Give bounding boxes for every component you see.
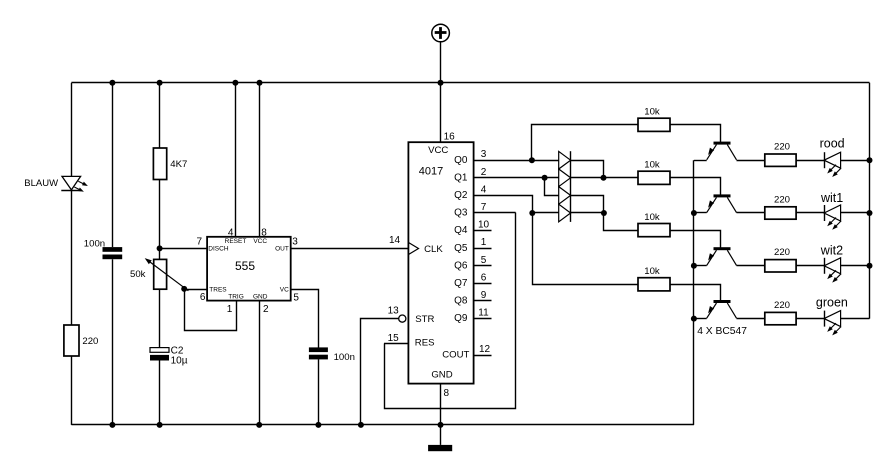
svg-text:7: 7: [481, 202, 487, 213]
LED BLAUW: [61, 176, 88, 191]
svg-text:220: 220: [774, 300, 790, 311]
LED rood: [824, 152, 841, 177]
wire D4 output: [571, 212, 604, 214]
svg-text:220: 220: [774, 247, 790, 258]
junction D1/D2 outputs: [601, 175, 607, 181]
svg-text:OUT: OUT: [275, 246, 289, 253]
wire LED rood to +V rail: [841, 160, 870, 162]
wire Q1 to diode D2: [474, 177, 559, 179]
ground symbol: [428, 425, 452, 451]
junction bottom rail / pin13: [358, 422, 364, 428]
junction bottom rail / C2 branch: [157, 422, 163, 428]
svg-text:Q8: Q8: [454, 296, 468, 307]
svg-text:220: 220: [774, 194, 790, 205]
junction D3/D4 outputs: [601, 210, 607, 216]
wire pot bottom to C2: [159, 289, 161, 347]
svg-text:4K7: 4K7: [170, 159, 187, 170]
wire 100n branch lower: [112, 259, 114, 425]
wire Q9 stub: [474, 318, 492, 320]
svg-text:9: 9: [481, 290, 487, 301]
wire 10k row4 to base: [671, 285, 721, 302]
svg-text:STR: STR: [415, 314, 434, 325]
svg-text:50k: 50k: [130, 269, 146, 280]
svg-text:TRIG: TRIG: [228, 294, 244, 301]
svg-text:10k: 10k: [644, 107, 660, 118]
wire D2 output to 10k row2: [571, 177, 638, 179]
junction DISCH node: [157, 245, 163, 251]
junction top rail / pin4: [232, 80, 238, 86]
svg-text:10k: 10k: [644, 266, 660, 277]
svg-text:10k: 10k: [644, 212, 660, 223]
wire left branch lower segment: [71, 356, 73, 425]
wire D3 output: [571, 196, 604, 213]
svg-text:3: 3: [481, 149, 487, 160]
wire D1 output: [571, 161, 604, 178]
junction bottom rail / pin2: [256, 422, 262, 428]
wire pin6 TRES: [184, 289, 207, 291]
wire LED wit2 to +V rail: [841, 265, 870, 267]
wire Q1 emitter to rail: [694, 160, 707, 162]
wire 10k row2 to base: [671, 178, 721, 196]
svg-text:VCC: VCC: [428, 145, 448, 156]
svg-text:1: 1: [481, 237, 487, 248]
diode D3: [559, 187, 571, 205]
svg-text:3: 3: [292, 237, 298, 248]
transistor Q2 BC547: [707, 194, 737, 212]
wire 220 row4 to LED: [796, 318, 824, 320]
svg-text:220: 220: [82, 336, 98, 347]
potentiometer 50k wiper arrow: [145, 258, 189, 291]
svg-text:RESET: RESET: [225, 238, 247, 245]
junction bottom rail / 100n branch: [109, 422, 115, 428]
diode D1: [559, 151, 571, 169]
transistor Q3 BC547: [707, 247, 737, 265]
svg-text:GND: GND: [253, 294, 268, 301]
svg-text:13: 13: [388, 306, 400, 317]
svg-text:10µ: 10µ: [171, 356, 188, 367]
junction +V rail rood: [867, 157, 873, 163]
svg-text:VC: VC: [280, 286, 289, 293]
wire emitter rail: [693, 160, 695, 425]
wire Q1 branch to diode D3: [545, 178, 559, 196]
svg-text:10k: 10k: [644, 160, 660, 171]
wire pin1 TRIG loop: [185, 289, 237, 331]
diode cathode bar: [570, 151, 572, 222]
svg-text:VCC: VCC: [253, 238, 267, 245]
svg-text:CLK: CLK: [424, 244, 443, 255]
wire pin13 STR to ground rail: [361, 319, 399, 425]
wire pin15 RES: [384, 343, 408, 345]
LED wit1: [824, 205, 841, 230]
svg-text:12: 12: [479, 344, 491, 355]
svg-text:10: 10: [478, 220, 490, 231]
junction top rail / 4K7 branch: [157, 80, 163, 86]
resistor 220 (left): [64, 325, 79, 356]
svg-text:COUT: COUT: [442, 349, 469, 360]
svg-text:GND: GND: [431, 369, 452, 380]
svg-text:14: 14: [389, 235, 401, 246]
wire Q3 collector to 220: [737, 265, 765, 267]
wire 10k row1 to base: [671, 125, 721, 143]
capacitor C2 10u: [150, 348, 169, 361]
CLK chevron: [409, 243, 419, 255]
wire pin8 to top rail: [259, 83, 261, 237]
wire pin8 GND down: [440, 384, 442, 425]
diode D2: [559, 169, 571, 187]
svg-text:8: 8: [261, 227, 267, 238]
junction bottom rail / 100n(555): [315, 422, 321, 428]
wire diode node to 10k row3: [604, 213, 639, 231]
svg-text:Q5: Q5: [454, 243, 468, 254]
wire 220 row2 to LED: [796, 212, 824, 214]
wire Q2 collector to 220: [737, 212, 765, 214]
svg-text:1: 1: [227, 304, 233, 315]
wire right +V rail down to LEDs: [869, 83, 871, 319]
junction emitter Q3: [691, 263, 697, 269]
wire 220 row3 to LED: [796, 265, 824, 267]
svg-text:7: 7: [197, 237, 203, 248]
svg-text:15: 15: [388, 333, 400, 344]
svg-text:RES: RES: [415, 338, 435, 349]
svg-text:555: 555: [235, 259, 255, 273]
wire Q7 stub: [474, 283, 492, 285]
svg-text:4017: 4017: [419, 166, 443, 178]
wire Q2 bend down: [474, 196, 533, 213]
wire top +V rail: [71, 82, 869, 84]
junction top rail / power: [438, 80, 444, 86]
wire LED groen to +V rail: [841, 318, 870, 320]
op-amp U1 555 body: [207, 237, 291, 301]
junction top rail / 100n branch: [109, 80, 115, 86]
wire left branch mid segment: [71, 190, 73, 325]
wire left branch upper segment: [71, 83, 73, 177]
svg-text:wit2: wit2: [820, 244, 843, 258]
svg-text:Q3: Q3: [454, 208, 468, 219]
svg-text:2: 2: [481, 167, 487, 178]
wire 4K7 top: [159, 83, 161, 148]
wire pin4 to top rail: [235, 83, 237, 237]
wire Q2 down to 10k row4: [533, 213, 639, 285]
junction wiper / TRES node: [181, 286, 187, 292]
wire 220 row1 to LED: [796, 160, 824, 162]
diode D4: [559, 204, 571, 222]
wire LED wit1 to +V rail: [841, 212, 870, 214]
wire pin3 OUT to CLK: [291, 248, 409, 250]
junction Q1 node: [542, 175, 548, 181]
svg-text:6: 6: [200, 292, 206, 303]
wire bottom ground rail: [71, 424, 694, 426]
svg-text:Q4: Q4: [454, 225, 468, 236]
wire Q0 to diode D1: [474, 160, 559, 162]
svg-text:2: 2: [263, 304, 269, 315]
wire Q2 emitter to rail: [694, 212, 707, 214]
wire 4K7 to pot: [159, 180, 161, 260]
svg-text:BLAUW: BLAUW: [24, 178, 58, 189]
svg-text:100n: 100n: [334, 352, 355, 363]
LED groen: [824, 311, 841, 336]
svg-text:100n: 100n: [84, 238, 105, 249]
wire Q3 emitter to rail: [694, 265, 707, 267]
svg-text:4: 4: [481, 184, 487, 195]
svg-text:TRES: TRES: [209, 287, 227, 294]
wire 100n to ground rail: [318, 359, 320, 425]
svg-text:groen: groen: [816, 296, 848, 310]
svg-text:11: 11: [478, 308, 489, 319]
wire Q0 riser to 10k row1: [532, 125, 639, 161]
wire Q6 stub: [474, 265, 492, 267]
svg-text:Q9: Q9: [454, 313, 468, 324]
resistor 10k row1: [638, 118, 670, 131]
wire 10k row3 to base: [671, 231, 721, 249]
svg-text:rood: rood: [820, 136, 845, 150]
wire Q1 collector to 220: [737, 160, 765, 162]
power +V terminal: [432, 24, 450, 42]
wire Q3 pin7 stub: [474, 212, 516, 214]
wire pin12 COUT stub: [474, 355, 492, 357]
resistor 220 row2: [765, 207, 796, 219]
svg-text:220: 220: [774, 142, 790, 153]
svg-text:DISCH: DISCH: [208, 246, 229, 253]
capacitor 100n (left): [103, 247, 123, 259]
svg-text:4: 4: [228, 227, 234, 238]
junction top rail / pin8: [257, 80, 263, 86]
svg-text:8: 8: [444, 388, 450, 399]
svg-text:wit1: wit1: [820, 191, 843, 205]
svg-text:16: 16: [444, 131, 456, 142]
transistor Q4 BC547: [707, 300, 737, 318]
wire pin2 GND down: [259, 301, 261, 425]
wire Q8 stub: [474, 300, 492, 302]
capacitor 100n (555): [309, 347, 328, 359]
wire Q2 to diode D4: [532, 212, 558, 214]
junction Q2 node: [529, 210, 535, 216]
wire C2 to ground rail: [159, 361, 161, 425]
wire 100n branch upper: [112, 83, 114, 247]
svg-text:Q1: Q1: [454, 172, 468, 183]
svg-text:Q6: Q6: [454, 260, 468, 271]
resistor 220 row3: [765, 260, 796, 272]
potentiometer 50k body: [154, 259, 167, 289]
junction +V rail wit2: [867, 263, 873, 269]
resistor 10k row2: [638, 171, 670, 184]
svg-text:Q2: Q2: [454, 190, 468, 201]
svg-text:4 X BC547: 4 X BC547: [697, 326, 747, 337]
resistor 10k row3: [638, 224, 670, 237]
junction emitter Q2: [691, 210, 697, 216]
IC U2 4017 body: [408, 142, 473, 383]
svg-text:Q0: Q0: [454, 155, 468, 166]
resistor 10k row4: [638, 278, 670, 291]
wire Q4 emitter to rail: [694, 318, 707, 320]
wire Q3 to RES feedback: [385, 213, 516, 409]
STR bubble: [399, 315, 406, 322]
resistor 220 row4: [765, 312, 796, 324]
svg-text:6: 6: [481, 272, 487, 283]
resistor 220 row1: [765, 154, 796, 166]
transistor Q1 BC547: [707, 142, 737, 160]
wire power to top rail: [440, 42, 442, 83]
junction Q0 node: [529, 157, 535, 163]
svg-text:5: 5: [293, 293, 299, 304]
junction bottom rail / pin8 4017: [438, 422, 444, 428]
wire pin16 VCC: [440, 83, 442, 142]
wire Q5 stub: [474, 248, 492, 250]
LED wit2: [824, 258, 841, 283]
wire pin5 VC to 100n: [291, 290, 319, 348]
wire Q4 stub: [474, 230, 492, 232]
junction +V rail wit1: [867, 210, 873, 216]
svg-text:5: 5: [481, 255, 487, 266]
junction emitter Q4: [691, 316, 697, 322]
wire Q4 collector to 220: [737, 318, 765, 320]
wire pin7 DISCH: [160, 248, 208, 250]
svg-text:Q7: Q7: [454, 278, 468, 289]
resistor 4K7: [153, 148, 166, 180]
